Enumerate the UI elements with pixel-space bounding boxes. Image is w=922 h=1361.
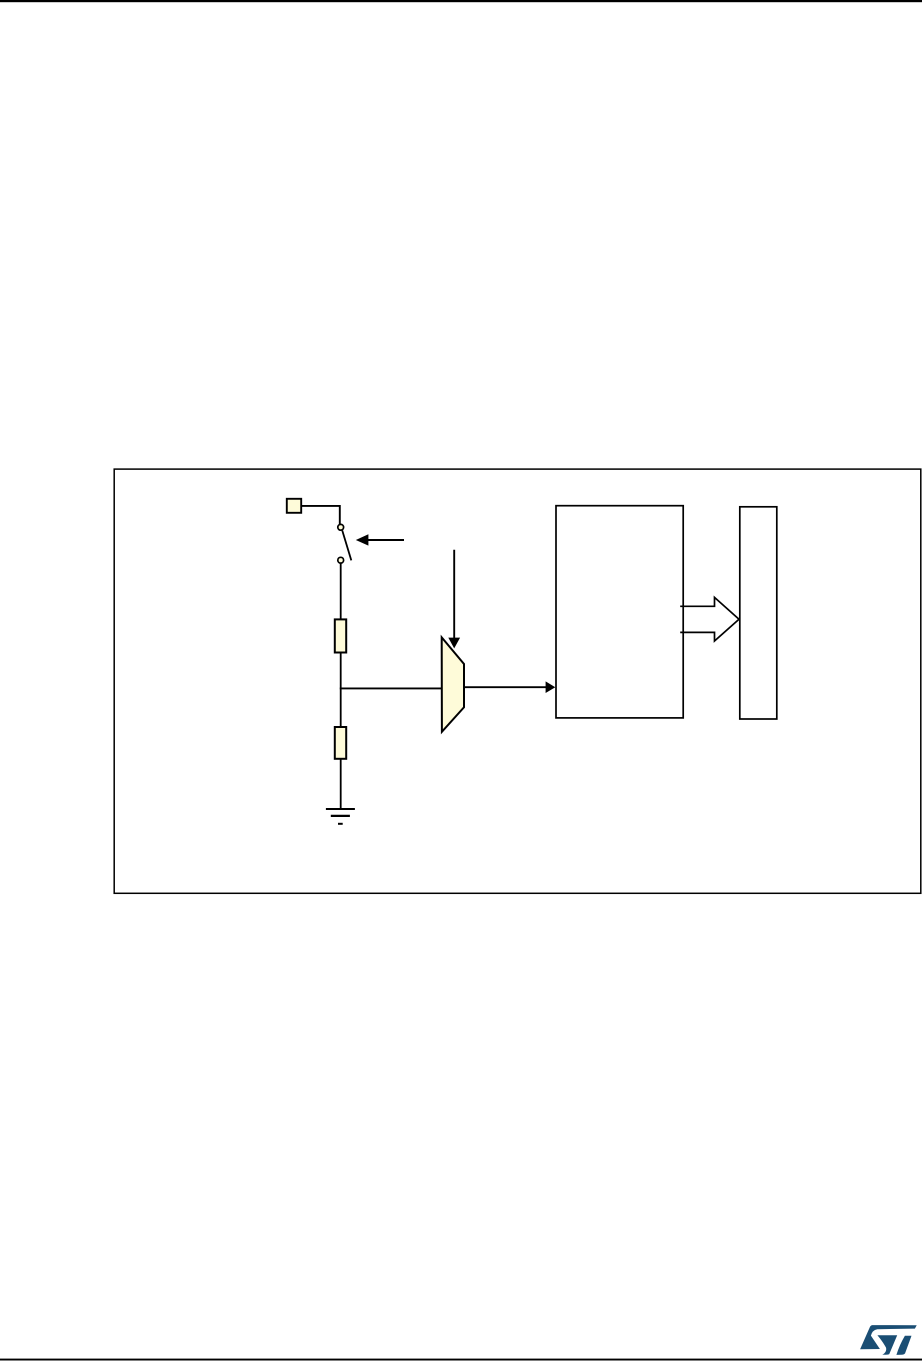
footer rule xyxy=(0,1359,922,1361)
wire R1 to R2 xyxy=(340,653,342,728)
annotation arrow pointing left at switch xyxy=(367,539,404,541)
data register block xyxy=(740,507,777,719)
mux output arrow to ADC xyxy=(464,686,546,688)
ADC block xyxy=(556,506,683,718)
wire switch to resistor R1 xyxy=(340,563,342,619)
wire R2 to ground xyxy=(340,759,342,810)
wire pad to switch xyxy=(302,506,340,524)
block arrow ADC to register xyxy=(680,597,739,641)
switch SW1 blade xyxy=(342,531,351,561)
switch SW1 pole contact circle xyxy=(338,524,344,530)
ground xyxy=(326,809,355,824)
switch SW1 throw contact circle xyxy=(338,557,344,563)
mux select arrow (down) xyxy=(453,550,455,639)
node wire to analog mux input xyxy=(340,687,442,689)
analog mux (trapezoid) xyxy=(442,637,464,731)
pad P1 (I/O pin square) xyxy=(287,499,301,513)
resistor R2 xyxy=(335,727,346,759)
header rule xyxy=(0,0,922,2)
resistor R1 xyxy=(335,619,346,652)
figure frame xyxy=(114,469,921,893)
ST logo xyxy=(860,1325,917,1355)
